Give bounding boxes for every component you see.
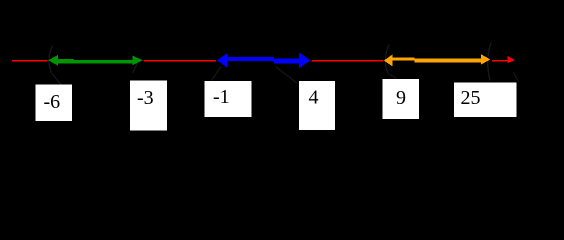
label box -6 [36,85,73,122]
leader line to -3 box [133,63,138,73]
parenthesis ( at 9 point [385,45,389,74]
label box 4 [299,81,335,130]
number line red segment 1 [12,60,48,62]
parenthesis ( at -6 point [49,46,53,73]
svg-text:-1: -1 [213,86,230,108]
leader line to -1 box [212,67,222,81]
parenthesis ) at 25 point [488,43,491,81]
leader line to 4 box [276,67,298,84]
svg-text:9: 9 [396,87,406,109]
blue right arrowhead [299,52,310,68]
green left arrowhead [48,55,58,66]
leader line to 9 box [389,74,398,80]
label box 25 [454,82,517,117]
svg-text:-3: -3 [137,87,154,109]
label box 9 [383,79,420,119]
number line red segment 3 [312,60,384,62]
orange interval arrow shaft right half [414,59,482,63]
number line red segment 4 [492,60,508,62]
orange right arrowhead [481,54,490,64]
orange left arrowhead [384,54,393,66]
green right arrowhead [133,56,143,66]
number line right arrowhead [507,56,515,64]
leader line to -6 box [50,66,64,87]
blue interval arrow shaft right half [274,58,301,63]
label box -3 [130,80,167,130]
green interval arrow shaft left half [56,59,74,63]
number line red segment 2 [144,60,217,62]
svg-text:25: 25 [461,87,481,109]
blue interval arrow shaft left half [227,57,274,61]
orange interval arrow shaft left half [392,57,414,60]
green interval arrow shaft right half [74,60,134,63]
blue left arrowhead [217,53,228,68]
leader line to 25 box [514,73,519,82]
svg-text:4: 4 [309,87,319,109]
label box -1 [205,81,252,117]
svg-text:-6: -6 [44,91,61,113]
